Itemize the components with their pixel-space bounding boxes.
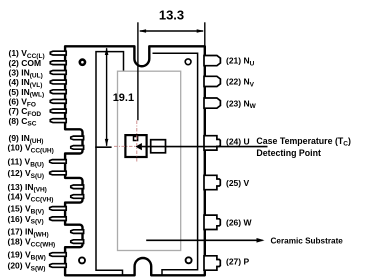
pin 16 [50,217,66,221]
svg-text:(27) P: (27) P [226,257,249,267]
pin 26 [204,215,220,229]
Tc leader arrowhead [135,143,142,150]
Tc leader line [142,146,268,148]
pin 23 [204,98,220,108]
pin 9 [71,136,84,140]
Tc small square [134,137,138,141]
inner case line right [153,53,198,274]
dimension 19.1 reference tick [95,146,111,148]
pin 3 [50,71,66,75]
pin 27 [204,256,220,270]
pin 24 [204,136,220,150]
package body outline [65,46,205,275]
pin 12 [50,171,66,175]
pin 2 [50,61,66,65]
pin 14 [71,195,84,199]
pin 1 [50,51,66,55]
pin 13 [71,185,84,189]
dimension 19.1 line [106,48,108,146]
svg-text:13.3: 13.3 [159,8,184,23]
pin 7 [50,109,66,113]
dimension 13.3 extension line right [204,22,206,45]
dimension 13.3 line [140,30,203,32]
pin 10 [71,146,84,150]
pin 19 [50,253,66,257]
ceramic substrate leader line [146,239,262,241]
inner case line left [96,52,124,275]
svg-text:(24) U: (24) U [226,136,250,146]
dimension 13.3 right arrow [197,29,205,33]
svg-text:(26) W: (26) W [226,218,252,228]
svg-text:Case Temperature (TC): Case Temperature (TC) [256,136,351,148]
ceramic substrate arrow [257,238,265,243]
pin 17 [71,230,84,234]
pin 11 [50,160,66,164]
dimension 13.3 extension line left [137,22,139,120]
mounting hole bottom-right [186,257,192,263]
dimension 13.3 left arrow [139,29,147,33]
mounting hole top-right [185,59,191,65]
mounting hole top-left [80,60,85,65]
center line vertical (pink) [136,121,138,163]
dimension 19.1 bottom arrow [105,139,109,147]
svg-text:Detecting Point: Detecting Point [256,148,321,158]
svg-text:(25) V: (25) V [226,178,249,188]
pin 5 [50,90,66,94]
mounting hole bottom-left [79,257,85,263]
pin 22 [204,76,220,86]
ceramic substrate rectangle [118,71,181,250]
center line horizontal (pink) [114,145,167,147]
pin 18 [71,240,84,244]
pin 20 [50,264,66,268]
dimension 19.1 top arrow [105,48,109,56]
pin 6 [50,99,66,103]
pin 25 [204,175,220,189]
pin 8 [50,119,66,123]
pin 4 [50,80,66,84]
pin 15 [50,207,66,211]
Tc detecting point square [125,135,146,157]
terminal square [151,140,166,153]
svg-text:(2) COM: (2) COM [9,58,42,68]
pin 21 [204,56,220,66]
svg-text:19.1: 19.1 [113,92,134,104]
svg-text:Ceramic Substrate: Ceramic Substrate [271,237,344,246]
